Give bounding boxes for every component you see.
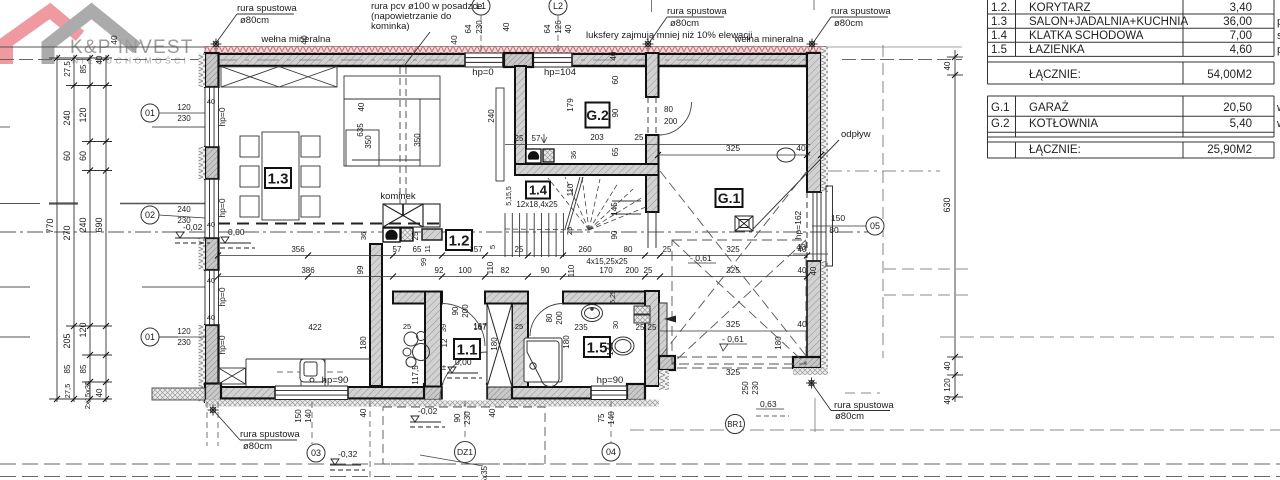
garage dim row lower [660, 330, 807, 332]
interior wall A (kitchen/stair) [515, 66, 526, 169]
svg-text:40: 40 [299, 35, 309, 45]
svg-text:SALON+JADALNIA+KUCHNIA: SALON+JADALNIA+KUCHNIA [1029, 16, 1188, 28]
svg-text:27,5: 27,5 [63, 61, 72, 77]
svg-text:80: 80 [664, 105, 673, 114]
wall A top junction block [504, 53, 533, 67]
top-left corner block [205, 53, 219, 87]
svg-text:110: 110 [486, 261, 495, 274]
svg-text:40: 40 [95, 388, 104, 397]
svg-text:25: 25 [515, 322, 523, 331]
kitchen corner X-box [219, 368, 246, 384]
right exterior wall upper [807, 53, 821, 192]
bottom wall corner blocks [205, 384, 221, 401]
svg-text:G.1: G.1 [718, 190, 741, 206]
right margin dashes [828, 170, 940, 172]
svg-text:25: 25 [663, 245, 672, 254]
logo red roof [7, 11, 81, 64]
washer dryer 1.5 [634, 306, 650, 323]
svg-text:150: 150 [831, 213, 845, 223]
svg-text:40: 40 [943, 395, 952, 404]
svg-text:7,00: 7,00 [1230, 30, 1252, 42]
svg-text:40: 40 [796, 143, 806, 153]
svg-text:75: 75 [597, 413, 606, 422]
svg-text:157: 157 [469, 245, 483, 254]
axis marker 01 bottom-left [141, 328, 159, 346]
svg-text:04: 04 [606, 447, 616, 457]
svg-text:80: 80 [545, 313, 554, 322]
svg-text:0,63: 0,63 [760, 399, 777, 409]
room label 1.3 [265, 168, 291, 188]
window left wall 3 [205, 270, 219, 325]
svg-text:230: 230 [177, 114, 191, 123]
svg-text:57: 57 [532, 134, 541, 143]
axis marker 02 [141, 206, 159, 224]
svg-text:145: 145 [610, 202, 619, 216]
fireplace stove symbols [383, 228, 442, 242]
north arrow garage [664, 316, 676, 323]
svg-text:770: 770 [45, 218, 55, 233]
right wall outside insulation [821, 47, 828, 192]
corridor dim row R2 [218, 276, 807, 278]
stair hall south wall of G.2 [515, 164, 659, 175]
svg-text:40: 40 [207, 220, 215, 229]
pcv duct dashed lines [399, 67, 401, 204]
kitchen sink [300, 359, 325, 382]
svg-text:36: 36 [569, 151, 578, 159]
svg-text:hp=90: hp=90 [322, 375, 349, 386]
window right wall hp=162 [807, 186, 833, 266]
axis marker BR1 [726, 415, 745, 434]
svg-text:57: 57 [393, 245, 402, 254]
svg-text:0,00: 0,00 [228, 227, 245, 237]
window L2 top [533, 53, 572, 67]
svg-text:100: 100 [458, 266, 472, 275]
svg-text:80: 80 [829, 225, 839, 235]
svg-text:-0,02: -0,02 [183, 222, 203, 232]
svg-text:180: 180 [562, 335, 571, 349]
terrace dashed rect [383, 407, 545, 464]
drain symbol [735, 216, 753, 231]
interior wall A lower (1.1 east + shaft) [512, 303, 528, 387]
sofa [344, 76, 440, 166]
SE corner: 1.5 east wall [645, 291, 659, 386]
svg-text:25: 25 [636, 323, 645, 332]
svg-text:150: 150 [294, 409, 303, 423]
stairs winder dashed fan [505, 177, 646, 230]
door DZ1 opening [442, 385, 487, 401]
svg-text:luksfery zajmują mniej niż 10%: luksfery zajmują mniej niż 10% elewacji [586, 30, 752, 41]
svg-text:270: 270 [62, 225, 72, 240]
svg-text:120: 120 [177, 103, 191, 112]
beam with X top-left [221, 67, 337, 88]
svg-text:64: 64 [543, 24, 552, 33]
svg-text:260: 260 [578, 245, 592, 254]
svg-text:120: 120 [78, 322, 88, 337]
svg-text:422: 422 [308, 323, 322, 332]
svg-text:325: 325 [726, 143, 740, 153]
svg-text:120: 120 [943, 378, 952, 392]
svg-text:60: 60 [611, 75, 620, 84]
svg-text:-0,32: -0,32 [338, 449, 358, 459]
svg-text:G.2: G.2 [586, 107, 609, 123]
svg-text:0,00: 0,00 [455, 357, 472, 367]
bottom dashed lines [0, 463, 1280, 465]
svg-text:GARAŻ: GARAŻ [1029, 101, 1069, 114]
tall cupboard [496, 88, 504, 181]
room label G.2 [586, 103, 610, 128]
dining table [262, 132, 299, 220]
svg-text:167: 167 [473, 322, 487, 331]
window bottom hp=90 left [275, 386, 348, 400]
interior wall D stair east [646, 135, 659, 212]
svg-text:BR1: BR1 [727, 420, 743, 429]
left margin dashes [0, 127, 205, 337]
svg-text:325: 325 [726, 367, 740, 377]
svg-text:1.5: 1.5 [991, 44, 1007, 56]
svg-text:12x18,4x25: 12x18,4x25 [516, 200, 558, 209]
svg-text:01: 01 [145, 332, 155, 342]
svg-text:85: 85 [79, 364, 88, 373]
svg-text:hp=104: hp=104 [544, 67, 576, 78]
insulation strip bottom [205, 400, 659, 407]
bold dashed line living [218, 223, 440, 225]
svg-text:20,50: 20,50 [1223, 102, 1252, 114]
svg-text:60: 60 [78, 151, 88, 161]
svg-text:1.5: 1.5 [587, 339, 608, 356]
garage top dim [658, 154, 810, 156]
reference dashed line top [0, 59, 200, 61]
svg-text:200: 200 [461, 304, 470, 318]
svg-text:hp=90: hp=90 [597, 375, 624, 386]
interior kitchen wall [370, 244, 382, 386]
svg-text:- 0,61: - 0,61 [690, 253, 712, 263]
svg-text:90: 90 [610, 230, 619, 239]
svg-text:12: 12 [440, 338, 449, 347]
svg-text:1.2: 1.2 [449, 232, 470, 249]
svg-text:25: 25 [635, 133, 644, 142]
svg-text:230: 230 [177, 338, 191, 347]
svg-text:DZ1: DZ1 [457, 447, 473, 457]
svg-text:ŁĄCZNIE:: ŁĄCZNIE: [1029, 69, 1081, 81]
svg-text:690: 690 [94, 217, 104, 232]
interior wall 1.1 west [425, 292, 441, 387]
svg-text:40: 40 [609, 51, 618, 60]
svg-text:350: 350 [413, 133, 422, 147]
svg-text:5,40: 5,40 [1230, 118, 1252, 130]
svg-text:4x15,25x25: 4x15,25x25 [586, 257, 628, 266]
G.2 west wall upper [646, 53, 659, 97]
svg-text:230: 230 [463, 411, 472, 425]
svg-text:27,5: 27,5 [63, 384, 72, 399]
svg-text:01: 01 [145, 108, 155, 118]
svg-text:144: 144 [606, 342, 615, 356]
svg-text:200: 200 [555, 311, 564, 325]
eaves dashed vertical right [882, 45, 884, 358]
svg-text:±: ± [442, 363, 447, 372]
svg-text:25: 25 [648, 323, 657, 332]
level -0.02 bottom [410, 416, 445, 427]
svg-text:240: 240 [487, 109, 496, 123]
corridor dim row R1 [218, 255, 807, 257]
svg-text:250: 250 [741, 381, 750, 395]
logo gray roof [48, 11, 137, 64]
axis marker L2 [549, 0, 567, 15]
svg-text:325: 325 [726, 319, 740, 329]
svg-text:ø80cm: ø80cm [243, 441, 272, 452]
svg-text:200: 200 [664, 117, 678, 126]
svg-text:85: 85 [63, 364, 72, 373]
svg-text:126: 126 [554, 20, 563, 34]
svg-text:25: 25 [644, 266, 653, 275]
svg-text:39: 39 [439, 324, 448, 332]
svg-text:65: 65 [611, 147, 620, 156]
svg-text:40: 40 [564, 24, 573, 33]
svg-text:KLATKA SCHODOWA: KLATKA SCHODOWA [1029, 30, 1144, 42]
svg-text:120: 120 [78, 107, 88, 122]
svg-text:630: 630 [942, 197, 952, 212]
svg-text:40: 40 [357, 102, 366, 111]
svg-text:240: 240 [62, 110, 72, 125]
svg-text:6,25: 6,25 [610, 290, 617, 304]
door 1.5 arc [530, 304, 563, 337]
svg-text:36: 36 [359, 232, 368, 240]
svg-text:90: 90 [451, 306, 460, 315]
svg-text:1.2.: 1.2. [991, 2, 1010, 14]
svg-text:325: 325 [726, 266, 740, 275]
SE corner foot block [659, 356, 675, 370]
svg-text:ŁĄCZNIE:: ŁĄCZNIE: [1029, 144, 1081, 156]
svg-text:- 0,61: - 0,61 [722, 334, 744, 344]
axis marker DZ1 [455, 442, 476, 463]
svg-text:120: 120 [177, 327, 191, 336]
svg-text:230: 230 [475, 20, 484, 34]
area table text [991, 2, 1280, 156]
svg-text:90: 90 [541, 266, 550, 275]
svg-text:KORYTARZ: KORYTARZ [1029, 2, 1091, 14]
interior wall B segment east [563, 292, 645, 304]
svg-text:hp=0: hp=0 [217, 335, 227, 354]
svg-text:05: 05 [870, 221, 880, 231]
svg-text:99: 99 [419, 258, 428, 266]
svg-text:140: 140 [304, 409, 313, 423]
svg-text:1.4: 1.4 [529, 183, 548, 198]
svg-text:4,60: 4,60 [1230, 44, 1252, 56]
svg-text:40: 40 [809, 266, 818, 275]
room label 1.2 [446, 230, 472, 250]
svg-text:40: 40 [502, 22, 511, 31]
svg-text:hp=0: hp=0 [217, 198, 227, 217]
svg-text:110: 110 [567, 264, 576, 277]
left exterior wall piers [205, 147, 219, 179]
svg-text:40: 40 [207, 276, 215, 285]
level 0.00 living [220, 237, 255, 248]
svg-text:386: 386 [301, 266, 315, 275]
garage cross dashes [660, 171, 807, 368]
axis marker 05 [866, 217, 884, 235]
svg-text:1.3: 1.3 [991, 16, 1007, 28]
garage SE corner block [793, 357, 821, 368]
svg-text:25: 25 [403, 322, 411, 331]
window left wall 1 [205, 87, 219, 147]
svg-text:1.3: 1.3 [268, 170, 289, 187]
svg-text:350: 350 [364, 135, 373, 149]
svg-text:40: 40 [109, 35, 119, 45]
svg-text:ø80cm: ø80cm [240, 15, 269, 26]
right exterior wall lower [807, 261, 821, 357]
svg-text:3,40: 3,40 [1230, 2, 1252, 14]
vertical dash below wall x370 [369, 401, 371, 480]
svg-text:rura spustowa: rura spustowa [237, 3, 297, 14]
window L1 top [465, 53, 503, 67]
kitchen stove circles [403, 332, 430, 368]
svg-text:40: 40 [207, 97, 215, 106]
svg-text:64: 64 [464, 24, 473, 33]
level -0.32 bottom [330, 459, 365, 470]
svg-text:hp=0: hp=0 [217, 107, 227, 126]
G.2 door dashes [648, 97, 656, 135]
svg-text:90: 90 [453, 413, 462, 422]
svg-text:230: 230 [751, 381, 760, 395]
axis marker 04 [602, 443, 620, 461]
stairs handrail diagonal [565, 177, 580, 229]
svg-text:40: 40 [449, 35, 459, 45]
svg-text:356: 356 [291, 245, 305, 254]
top edge short verticals [651, 0, 653, 12]
svg-text:rura spustowa: rura spustowa [831, 6, 891, 17]
room label 1.1 [454, 339, 480, 359]
top exterior wall [205, 53, 821, 67]
svg-text:hp=162: hp=162 [793, 210, 803, 239]
svg-text:5,15,5: 5,15,5 [506, 186, 513, 206]
svg-text:hp=0: hp=0 [217, 287, 227, 306]
dimension chain left [49, 55, 112, 402]
svg-text:82: 82 [501, 266, 510, 275]
svg-text:85: 85 [79, 64, 88, 73]
svg-text:170: 170 [599, 266, 613, 275]
svg-text:240: 240 [177, 205, 191, 214]
room label G.1 [716, 189, 743, 207]
fireplace kominek [383, 204, 440, 227]
svg-text:1.4: 1.4 [991, 30, 1008, 42]
window sill dashes bottom [277, 371, 347, 373]
dimension chain right [947, 50, 963, 402]
svg-text:200: 200 [625, 266, 639, 275]
reference line top [0, 46, 206, 48]
svg-text:117,5: 117,5 [411, 365, 420, 385]
svg-text:180: 180 [490, 337, 499, 351]
svg-text:99: 99 [356, 265, 365, 274]
svg-text:40: 40 [797, 319, 807, 329]
svg-text:03: 03 [311, 448, 321, 458]
svg-text:60: 60 [62, 151, 72, 161]
svg-text:179: 179 [566, 98, 575, 112]
svg-text:90: 90 [611, 108, 620, 117]
axis marker 03 [307, 444, 325, 462]
area table grid [988, 0, 1275, 158]
svg-text:40: 40 [798, 266, 807, 275]
svg-text:11: 11 [423, 245, 432, 253]
shower 1.5 [524, 338, 562, 387]
svg-text:rura spustowa: rura spustowa [667, 6, 727, 17]
svg-text:180: 180 [359, 336, 368, 350]
svg-text:30: 30 [611, 321, 620, 329]
toilet 1.5 [612, 337, 634, 355]
svg-text:5: 5 [488, 245, 497, 249]
interior wall B segment west [393, 292, 442, 304]
svg-text:54,00M2: 54,00M2 [1207, 69, 1252, 81]
svg-text:kominek: kominek [380, 191, 416, 202]
svg-text:36,00: 36,00 [1223, 16, 1252, 28]
svg-text:325: 325 [726, 245, 740, 254]
svg-text:635: 635 [356, 123, 365, 137]
room label 1.5 [584, 337, 610, 357]
svg-text:235: 235 [574, 323, 588, 332]
svg-text:40: 40 [488, 408, 497, 417]
svg-text:02: 02 [145, 210, 155, 220]
svg-text:92: 92 [435, 266, 444, 275]
svg-text:wełna mineralna: wełna mineralna [260, 34, 331, 45]
svg-text:-0,02: -0,02 [418, 406, 438, 416]
interior wall B segment mid [485, 292, 528, 304]
svg-text:80: 80 [624, 245, 633, 254]
svg-text:240: 240 [78, 217, 88, 232]
insulation strip pink top [205, 47, 826, 54]
svg-text:rura spustowa: rura spustowa [240, 429, 300, 440]
washbasin G.2 wall [777, 148, 795, 162]
svg-text:25: 25 [565, 227, 574, 235]
level -0.02 left [175, 232, 210, 243]
stairs lower flight risers [505, 213, 563, 257]
top-right corner block [807, 53, 821, 67]
G2 dim row [505, 144, 810, 146]
SW outside step [152, 388, 205, 400]
svg-text:G.1: G.1 [991, 102, 1010, 114]
svg-text:KOTŁOWNIA: KOTŁOWNIA [1029, 118, 1098, 130]
left wall extension dashes below [206, 402, 208, 446]
svg-text:40: 40 [359, 408, 368, 417]
window left wall 2 [205, 179, 219, 238]
svg-text:kominka): kominka) [371, 21, 410, 32]
svg-text:40: 40 [943, 61, 952, 70]
svg-text:203: 203 [590, 133, 604, 142]
svg-text:40: 40 [943, 361, 952, 370]
axis line 02 [0, 231, 878, 233]
stairs tread edges right [612, 200, 641, 202]
boiler symbols G.2 [526, 149, 554, 163]
svg-text:40: 40 [796, 242, 806, 252]
SE corner insulation jog [659, 370, 669, 390]
room label 1.4 [526, 182, 550, 199]
door 1.1 arc [442, 304, 485, 347]
svg-text:w: w [1276, 102, 1280, 114]
svg-text:w: w [1276, 118, 1280, 130]
axis marker 01 top [141, 104, 159, 122]
svg-text:25: 25 [515, 245, 524, 254]
washbasin 1.5 [582, 305, 603, 322]
kitchen counter [246, 359, 370, 386]
svg-text:25,90M2: 25,90M2 [1207, 144, 1252, 156]
svg-text:G.2: G.2 [991, 118, 1010, 130]
svg-text:L2: L2 [553, 1, 563, 11]
svg-text:ŁAZIENKA: ŁAZIENKA [1029, 44, 1085, 56]
axis marker L1 [472, 0, 490, 15]
svg-text::15x35: :15x35 [480, 465, 489, 480]
svg-text:40: 40 [207, 313, 215, 322]
svg-text:rura spustowa: rura spustowa [834, 400, 894, 411]
svg-text:25: 25 [411, 231, 420, 240]
svg-text:110: 110 [566, 183, 575, 196]
svg-text:65: 65 [413, 245, 422, 254]
